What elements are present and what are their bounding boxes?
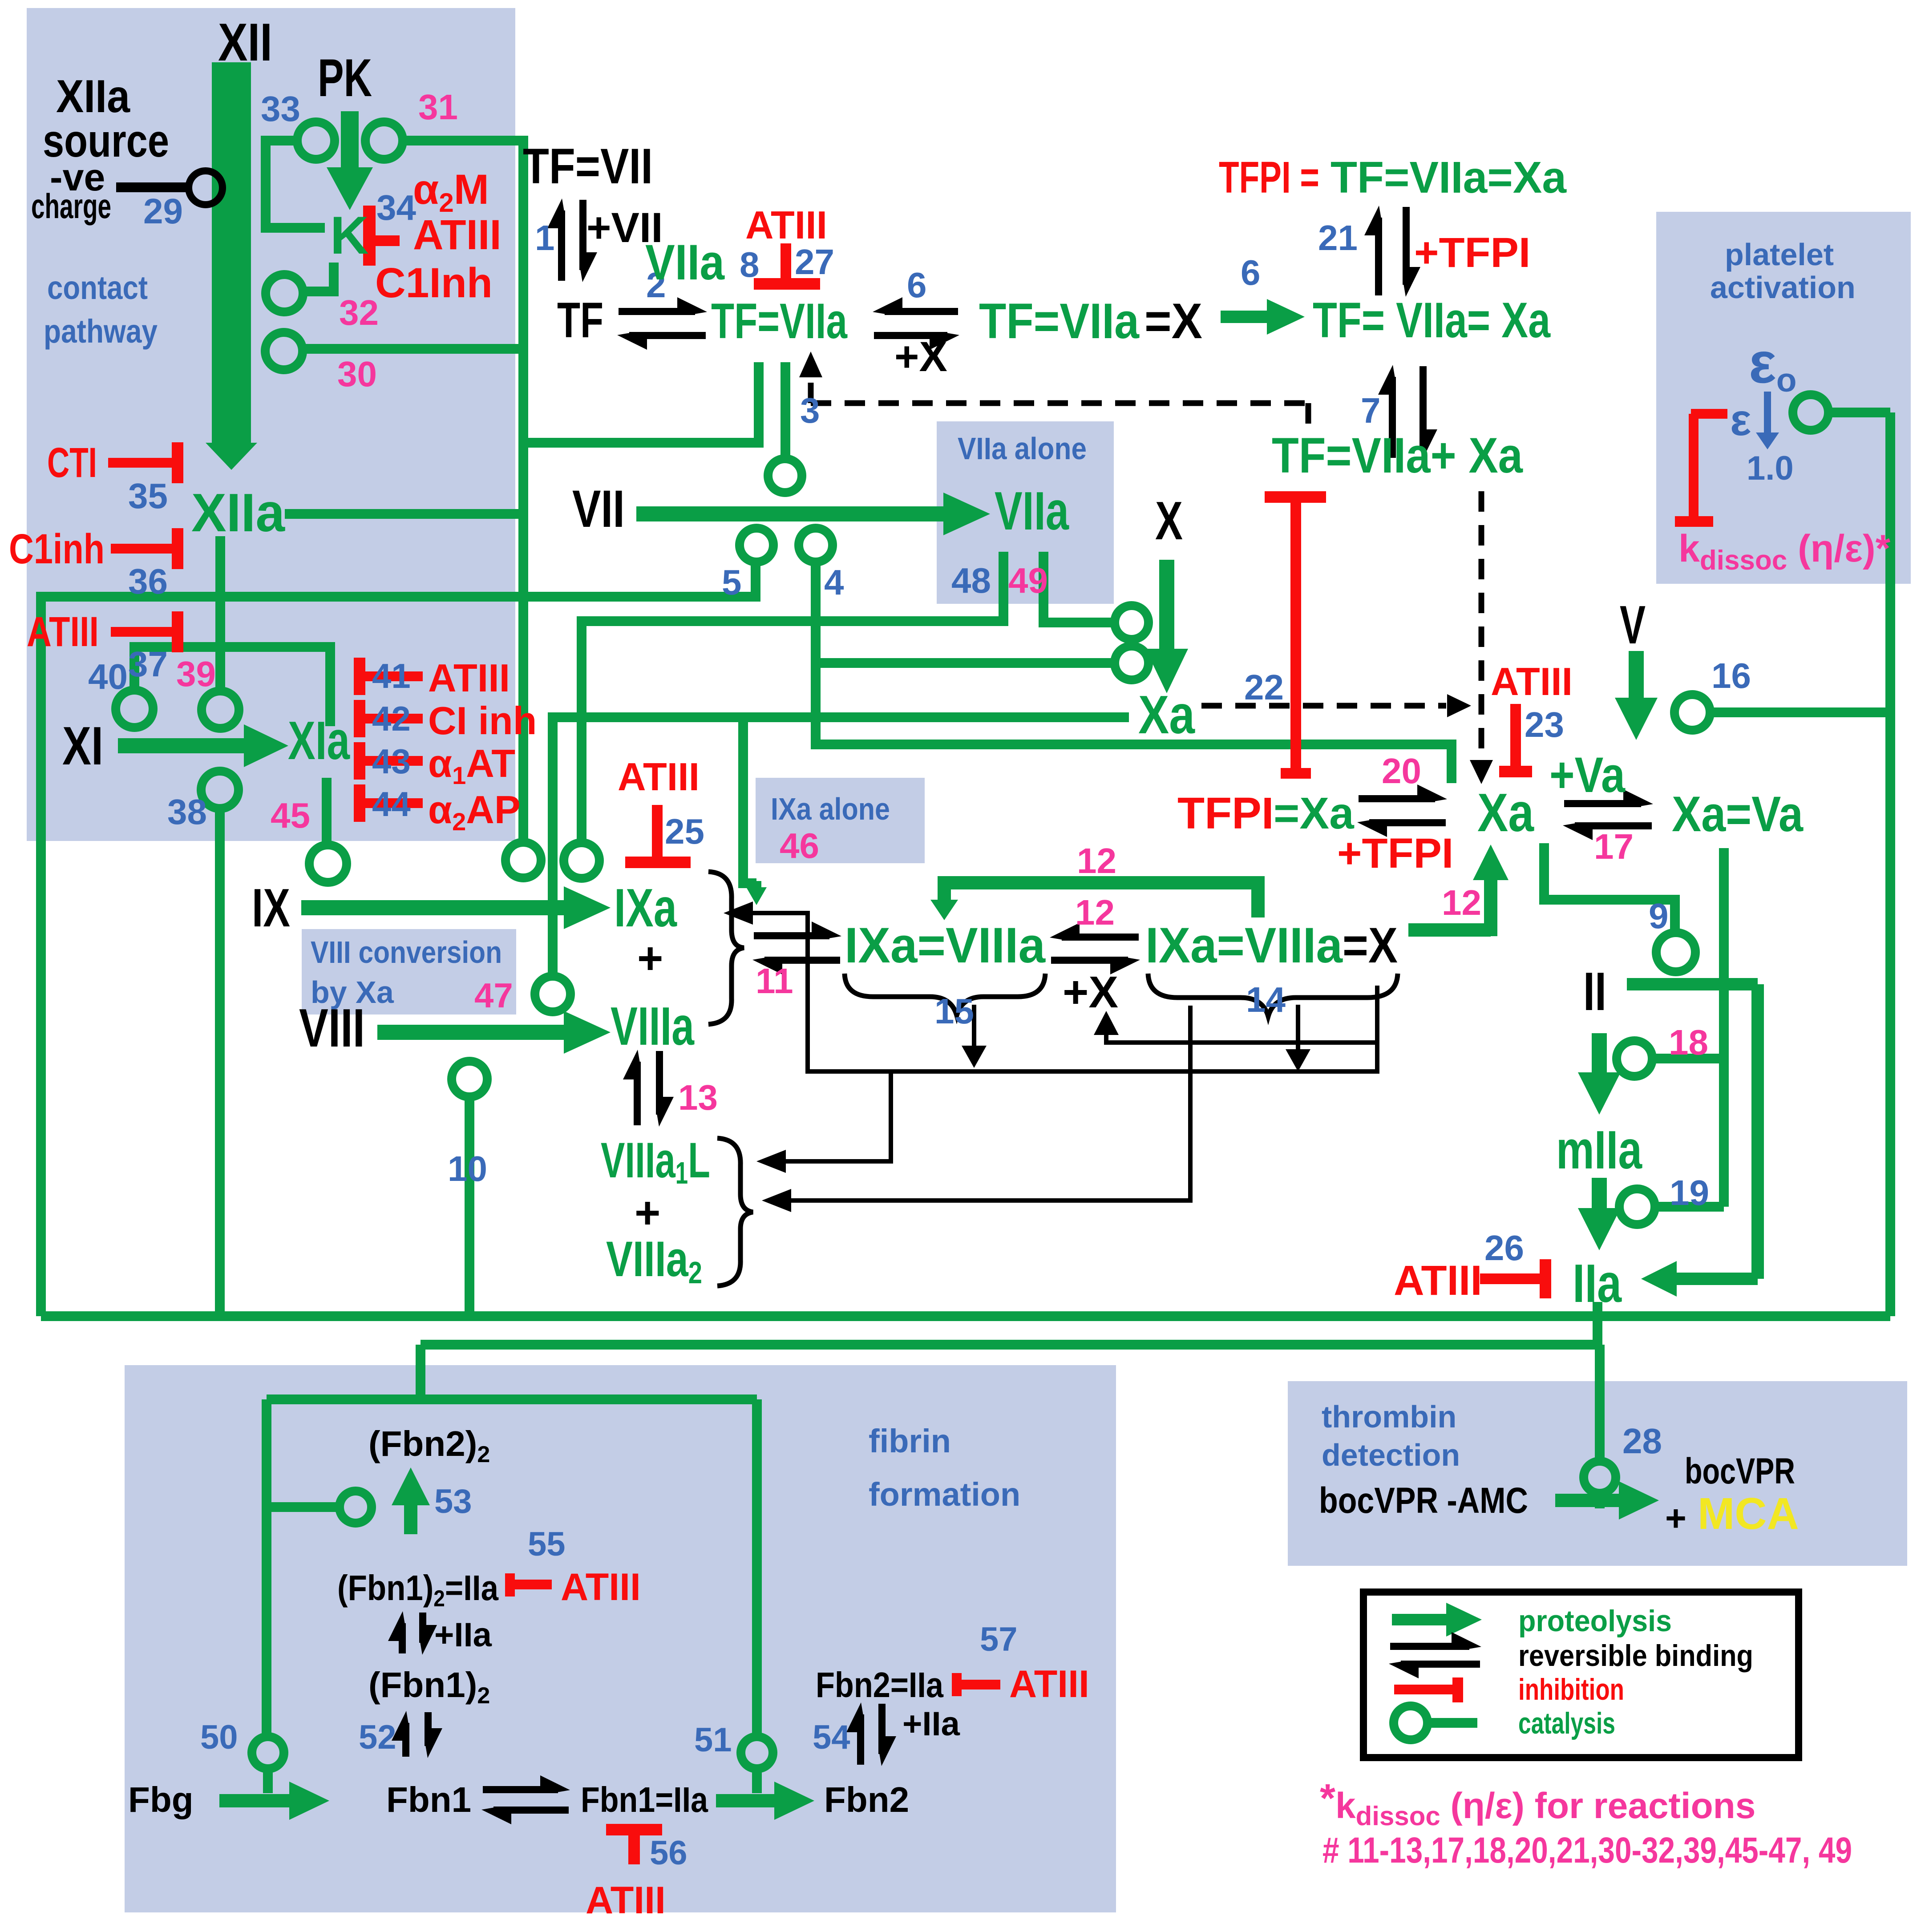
svg-text:VIII conversion: VIII conversion	[311, 935, 502, 970]
svg-text:3: 3	[800, 391, 820, 430]
svg-text:13: 13	[678, 1078, 718, 1117]
inhibition 34 on K	[363, 206, 376, 266]
svg-text:46: 46	[780, 826, 819, 865]
wire reaction 16 (platelet rail to circle 16)	[1710, 707, 1890, 717]
harpoons 52 vertical	[402, 1723, 409, 1757]
inhibition kdissoc on platelet epsilon	[1691, 409, 1727, 419]
wire reaction 45 (XIa down to circle 45 on IX arrow)	[322, 778, 332, 845]
svg-text:XI: XI	[62, 715, 103, 776]
catalysis circle platelet activation	[1793, 395, 1828, 430]
svg-text:37: 37	[128, 644, 168, 684]
inhibition 41 ATIII on XIa	[354, 658, 365, 695]
svg-text:=X: =X	[1343, 917, 1398, 973]
panel VIIa alone	[937, 421, 1114, 604]
svg-text:ATIII: ATIII	[428, 656, 510, 700]
svg-text:17: 17	[1594, 827, 1634, 866]
svg-text:29: 29	[143, 191, 183, 231]
arrow legend proteolysis	[1392, 1614, 1446, 1625]
svg-text:thrombin: thrombin	[1322, 1399, 1456, 1434]
svg-text:Fbn1=IIa: Fbn1=IIa	[581, 1780, 708, 1819]
panel contact pathway	[27, 8, 515, 841]
wire reaction 30 (XIIa to K loop)	[303, 344, 523, 354]
svg-text:ε: ε	[1730, 395, 1751, 445]
svg-text:platelet: platelet	[1725, 237, 1834, 272]
svg-text:ATIII: ATIII	[27, 608, 99, 655]
wire platelet activation output	[1828, 408, 1890, 417]
svg-text:contact: contact	[47, 269, 148, 306]
panel thrombin detection	[1288, 1381, 1907, 1566]
svg-text:V: V	[1620, 594, 1646, 655]
catalysis circle 53	[340, 1491, 372, 1523]
svg-text:VII: VII	[572, 480, 625, 538]
inhibition 44 a2AP on XIa	[354, 784, 365, 822]
svg-text:51: 51	[694, 1721, 732, 1759]
svg-text:45: 45	[271, 796, 310, 835]
svg-text:II: II	[1583, 961, 1606, 1022]
brace VIIIa1L plus VIIIa2 group	[717, 1138, 753, 1286]
svg-text:VIIa: VIIa	[995, 481, 1069, 541]
svg-text:mIIa: mIIa	[1556, 1120, 1642, 1180]
arrow Fbg to Fbn1	[219, 1794, 289, 1807]
svg-text:XIIa: XIIa	[191, 482, 285, 543]
catalysis circle 47	[535, 976, 570, 1012]
svg-text:31: 31	[418, 87, 458, 127]
svg-text:VIII: VIII	[299, 998, 365, 1058]
svg-text:TF=VIIa: TF=VIIa	[711, 293, 848, 349]
catalysis circle 33	[297, 122, 335, 159]
svg-text:20: 20	[1382, 751, 1421, 791]
svg-text:ATIII: ATIII	[1394, 1257, 1482, 1304]
line 15 dissociation of IXa=VIIIa	[972, 1005, 976, 1046]
svg-text:MCA: MCA	[1698, 1489, 1799, 1539]
svg-text:26: 26	[1484, 1228, 1524, 1268]
svg-text:proteolysis: proteolysis	[1518, 1604, 1672, 1638]
svg-text:PK: PK	[318, 48, 372, 108]
arrow VII to VIIa	[636, 506, 943, 521]
svg-text:43: 43	[372, 742, 411, 781]
svg-text:50: 50	[200, 1718, 238, 1756]
legend box frame	[1363, 1592, 1799, 1758]
svg-text:57: 57	[980, 1621, 1018, 1658]
svg-text:36: 36	[128, 562, 168, 601]
catalysis circle 39	[202, 691, 239, 728]
svg-text:19: 19	[1670, 1173, 1709, 1213]
harpoons 13 VIIIa dissociation vertical	[634, 1062, 641, 1125]
wire reaction 49 (VIIa alone to circle at X arrow)	[1043, 552, 1114, 622]
svg-text:IXa: IXa	[614, 877, 677, 938]
arrow IX to IXa	[301, 900, 564, 915]
svg-text:25: 25	[665, 812, 704, 851]
inhibition 37 ATIII on XIIa	[111, 627, 178, 637]
arrow II to mIIa	[1592, 1033, 1607, 1072]
inhibition legend sample	[1394, 1685, 1453, 1694]
catalysis circle 48 on IX arrow	[564, 843, 599, 878]
harpoons legend sample	[1390, 1643, 1469, 1650]
svg-text:TF=VIIa: TF=VIIa	[979, 293, 1140, 349]
svg-text:16: 16	[1711, 656, 1751, 695]
svg-text:+: +	[635, 1188, 660, 1238]
svg-text:Xa: Xa	[1138, 684, 1195, 745]
inhibition 27 ATIII on TF=VIIa	[781, 243, 791, 281]
wire reaction 9 (Xa=Va down to circle 9)	[1544, 843, 1675, 933]
svg-text:8: 8	[740, 245, 760, 284]
wire reaction 38 (IIa rail up to circle 38)	[215, 808, 225, 1316]
wire XIIa output right	[285, 509, 523, 519]
harpoons 17 Xa to Xa=Va	[1564, 800, 1641, 807]
svg-text:VIIa alone: VIIa alone	[958, 431, 1087, 466]
catalysis circle 30	[265, 332, 303, 370]
svg-text:12: 12	[1077, 841, 1116, 881]
wire reaction 5: IIa rail to circle 5 (VII activation by IIa)	[41, 562, 756, 1316]
svg-text:54: 54	[813, 1718, 850, 1756]
svg-text:18: 18	[1669, 1023, 1708, 1062]
dashed recycle TF=VIIa+Xa to TF=VIIa	[811, 400, 1308, 406]
svg-text:Xa: Xa	[1477, 782, 1534, 843]
svg-text:(Fbn1)2: (Fbn1)2	[368, 1665, 490, 1709]
wire reaction 50 drop (IIa to Fbg arrow)	[262, 1399, 271, 1738]
svg-text:42: 42	[372, 699, 411, 738]
wire bottom rail (IIa distribution)	[41, 1311, 1890, 1321]
svg-text:TF=VIIa+ Xa: TF=VIIa+ Xa	[1272, 428, 1523, 483]
svg-text:ATIII: ATIII	[618, 755, 700, 799]
svg-text:detection: detection	[1322, 1438, 1460, 1472]
svg-text:activation: activation	[1710, 270, 1856, 305]
inhibition 57 ATIII on Fbn2=IIa	[952, 1673, 962, 1696]
catalysis circle 9	[1656, 933, 1695, 972]
svg-text:ATIII: ATIII	[561, 1566, 641, 1609]
svg-text:41: 41	[372, 656, 411, 695]
wire IIa stub down	[1593, 1302, 1602, 1345]
svg-text:+X: +X	[894, 333, 947, 380]
inhibition 36 C1inh	[111, 544, 178, 554]
svg-text:VIIIa: VIIIa	[611, 996, 695, 1056]
svg-text:bocVPR: bocVPR	[1685, 1451, 1795, 1491]
arrow XII to XIIa	[212, 62, 251, 443]
panel VIII conversion by Xa	[302, 929, 516, 1015]
svg-text:39: 39	[176, 654, 216, 694]
svg-text:38: 38	[167, 792, 207, 832]
catalysis circle 18	[1617, 1041, 1652, 1076]
svg-text:+IIa: +IIa	[434, 1616, 492, 1654]
wire prothrombinase vertical	[1719, 848, 1729, 1207]
svg-text:VIIIa1L: VIIIa1L	[601, 1132, 710, 1190]
svg-text:1.0: 1.0	[1747, 449, 1794, 487]
wire reaction 10 (VIII activation by IIa)	[465, 1097, 474, 1316]
inhibition 22 on Xa production	[1265, 491, 1326, 503]
wire reaction 3 stub (TF=VIIa to circle 3)	[781, 362, 790, 458]
catalysis circle 10	[452, 1061, 487, 1097]
svg-text:11: 11	[756, 961, 793, 1001]
svg-text:Xa=Va: Xa=Va	[1672, 786, 1804, 842]
svg-text:CTI: CTI	[47, 439, 97, 486]
wire reaction 33 loop to K	[266, 141, 325, 228]
line dissociation return from complexes to IXa brace	[724, 901, 753, 925]
harpoons 20 TFPI=Xa to Xa	[1359, 795, 1435, 802]
arrow PK to K	[341, 111, 359, 167]
wire IIa return vertical	[1751, 984, 1764, 1279]
svg-text:5: 5	[722, 562, 742, 602]
svg-text:TF= VIIa= Xa: TF= VIIa= Xa	[1313, 292, 1551, 348]
wire reaction 46 (IXa alone to circle at X arrow)	[816, 658, 1115, 668]
svg-text:53: 53	[434, 1483, 472, 1520]
wire fibrin feed	[416, 1345, 425, 1399]
wire reaction 32 (K autocatalysis)	[303, 263, 334, 291]
inhibition 42 CI inh on XIa	[354, 700, 365, 737]
svg-text:catalysis: catalysis	[1518, 1706, 1615, 1740]
svg-text:=X: =X	[1144, 293, 1202, 349]
arrow mIIa to IIa	[1592, 1178, 1607, 1208]
catalysis circle 38	[201, 771, 239, 808]
svg-text:(Fbn2)2: (Fbn2)2	[368, 1424, 490, 1467]
catalysis circle 4	[799, 528, 833, 562]
svg-text:49: 49	[1008, 561, 1048, 600]
svg-text:inhibition: inhibition	[1518, 1673, 1624, 1706]
svg-text:ATIII: ATIII	[586, 1879, 666, 1922]
svg-text:+IIa: +IIa	[902, 1705, 960, 1743]
inhibition 26 ATIII on IIa	[1480, 1273, 1541, 1284]
svg-text:α1AT: α1AT	[428, 741, 515, 789]
catalysis circle on IX arrow (31/8)	[506, 842, 541, 878]
svg-text:C1inh: C1inh	[9, 525, 105, 573]
line VIIIa1L return upper	[756, 1150, 786, 1173]
svg-text:+TFPI: +TFPI	[1337, 830, 1453, 877]
line 14 dissociation of IXa=VIIIa=X	[1296, 1005, 1300, 1049]
svg-text:IIa: IIa	[1573, 1253, 1622, 1314]
wire reaction 40 loop (XIa autocatalysis)	[134, 647, 330, 726]
svg-text:33: 33	[261, 89, 300, 129]
dashed Xa transport horizontal	[1201, 703, 1446, 709]
wire lower rail to fibrin/thrombin detection	[421, 1340, 1600, 1350]
svg-text:ATIII: ATIII	[413, 211, 501, 259]
panel platelet activation	[1656, 212, 1911, 584]
catalysis circle 32	[266, 275, 303, 312]
harpoons 2 TF to TF=VIIa	[619, 308, 695, 315]
inhibition 35 CTI	[108, 458, 178, 468]
harpoons +IIa (Fbn1)2 vertical	[399, 1623, 406, 1653]
svg-text:(Fbn1)2=IIa: (Fbn1)2=IIa	[337, 1568, 498, 1612]
svg-text:IXa=VIIIa: IXa=VIIIa	[1145, 917, 1343, 973]
inhibition 23 ATIII on Xa	[1510, 704, 1521, 767]
svg-text:# 11-13,17,18,20,21,30-32,39,4: # 11-13,17,18,20,21,30-32,39,45-47, 49	[1322, 1830, 1852, 1871]
blue arrow epsilon	[1764, 392, 1771, 432]
svg-text:35: 35	[128, 476, 168, 516]
svg-text:+: +	[637, 934, 663, 983]
wire reaction 4 (Xa to VII circle, long route to Xa node)	[816, 563, 1452, 783]
wire II input	[1627, 978, 1758, 990]
svg-text:21: 21	[1318, 218, 1358, 258]
svg-text:reversible binding: reversible binding	[1518, 1639, 1753, 1673]
catalysis circle 3	[768, 459, 802, 493]
svg-text:α2AP: α2AP	[428, 788, 521, 836]
svg-text:6: 6	[907, 265, 927, 305]
harpoons 1 TF=VII vertical	[558, 210, 565, 281]
svg-text:charge: charge	[31, 186, 111, 226]
catalysis circle 5	[740, 528, 773, 562]
svg-text:pathway: pathway	[44, 313, 158, 350]
svg-text:6: 6	[1241, 253, 1261, 292]
svg-text:formation: formation	[869, 1476, 1020, 1513]
svg-text:23: 23	[1525, 705, 1564, 744]
catalysis circle 46 at X arrow	[1115, 646, 1149, 680]
arrow X to Xa	[1159, 560, 1174, 649]
svg-text:Fbn2=IIa: Fbn2=IIa	[816, 1665, 943, 1705]
wire reaction 48 (VIIa alone to circle on IX arrow)	[582, 552, 1003, 843]
wire reaction 12 product to Xa	[1408, 923, 1491, 937]
svg-text:34: 34	[376, 188, 416, 227]
underbrace IXa=VIIIa	[845, 974, 1045, 1015]
svg-text:bocVPR -AMC: bocVPR -AMC	[1319, 1480, 1528, 1521]
svg-text:55: 55	[528, 1525, 566, 1563]
harpoons 7 TF=VIIa+Xa vertical	[1389, 377, 1396, 458]
catalysis circle 31	[365, 122, 403, 159]
svg-text:14: 14	[1246, 980, 1286, 1019]
underbrace IXa=VIIIa=X	[1148, 974, 1398, 1016]
wire XIIa down to circle 39	[215, 536, 225, 691]
arrow V to Va	[1629, 651, 1644, 698]
arrow VIII to VIIIa	[377, 1025, 564, 1040]
svg-text:fibrin: fibrin	[869, 1423, 951, 1459]
svg-text:+X: +X	[1063, 967, 1118, 1017]
line VIIIa1L return lower	[762, 1189, 791, 1212]
catalysis circle 45	[309, 845, 347, 882]
catalysis circle 51	[741, 1737, 773, 1769]
svg-text:XII: XII	[218, 12, 272, 72]
svg-text:TF=VIIa=Xa: TF=VIIa=Xa	[1331, 153, 1567, 202]
svg-text:1: 1	[535, 218, 555, 258]
wire reaction 8 (TF=VIIa to IX line)	[523, 362, 759, 443]
arrow into IIa	[1677, 1273, 1758, 1285]
arrow Fbn1=IIa to Fbn2	[716, 1794, 774, 1807]
svg-text:30: 30	[337, 354, 377, 394]
harpoons 54 vertical	[857, 1714, 864, 1765]
svg-text:9: 9	[1649, 896, 1669, 936]
wire reaction 12 release to IXa=VIIIa	[944, 883, 1258, 917]
svg-text:C1Inh: C1Inh	[375, 259, 493, 307]
catalysis circle 49 at X arrow	[1115, 606, 1149, 639]
brace IXa plus VIIIa group	[708, 872, 744, 1024]
svg-text:+Va: +Va	[1549, 747, 1626, 803]
svg-text:TF: TF	[557, 292, 603, 348]
wire reaction 19 circle link	[1655, 1202, 1724, 1212]
svg-text:15: 15	[934, 991, 974, 1031]
svg-text:XIIa: XIIa	[56, 71, 130, 122]
svg-text:40: 40	[88, 657, 128, 696]
svg-text:44: 44	[372, 784, 411, 824]
svg-text:12: 12	[1075, 893, 1115, 932]
svg-text:IXa=VIIIa: IXa=VIIIa	[845, 917, 1046, 973]
svg-text:4: 4	[824, 562, 844, 602]
catalysis circle 16	[1674, 695, 1710, 730]
svg-text:XIa: XIa	[288, 710, 350, 771]
harpoons Fbn1 to Fbn1=IIa	[483, 1786, 558, 1793]
harpoons 21 TFPI=TF=VIIa=Xa vertical	[1375, 218, 1382, 295]
svg-text:IX: IX	[252, 877, 290, 938]
inhibition 55 ATIII on (Fbn1)2=IIa	[505, 1573, 515, 1597]
harpoons 12 IXa=VIIIa to IXa=VIIIa=X	[1062, 934, 1139, 941]
svg-text:10: 10	[448, 1149, 487, 1188]
svg-text:47: 47	[474, 976, 513, 1015]
svg-text:7: 7	[1361, 391, 1381, 430]
svg-text:28: 28	[1622, 1421, 1662, 1461]
svg-text:TFPI =: TFPI =	[1219, 153, 1319, 202]
svg-text:ATIII: ATIII	[745, 203, 827, 247]
svg-text:X: X	[1155, 490, 1183, 551]
svg-text:CI inh: CI inh	[428, 699, 537, 743]
svg-text:12: 12	[1442, 883, 1481, 922]
wire reaction 51 drop (IIa to Fbn1=IIa arrow)	[752, 1399, 762, 1738]
inhibition 43 a1AT on XIa	[354, 742, 365, 780]
wire reaction 31/8 line down to IX (K, XIIa, TF=VIIa inputs)	[403, 141, 523, 842]
arrow 6 TF=VIIa=X to TF=VIIa=Xa	[1221, 311, 1267, 323]
svg-text:Fbn1: Fbn1	[386, 1780, 471, 1819]
wire reaction 47 (Xa to VIII conversion circle)	[553, 717, 1129, 976]
svg-text:56: 56	[650, 1834, 687, 1872]
inhibition 56 ATIII on Fbn1=IIa	[606, 1824, 662, 1835]
wire reaction 18 circle link	[1652, 1054, 1724, 1063]
svg-text:48: 48	[951, 561, 991, 600]
arrow XI to XIa	[118, 738, 244, 753]
node -ve charge contact circle 29	[116, 182, 190, 192]
svg-text:27: 27	[795, 242, 834, 282]
wire right border	[1885, 412, 1895, 1316]
svg-text:+: +	[1665, 1498, 1686, 1539]
inhibition 25 ATIII on IXa	[652, 805, 663, 860]
panel fibrin formation	[125, 1365, 1116, 1912]
svg-text:ATIII: ATIII	[1009, 1663, 1089, 1706]
line X recycle to +X	[1106, 1032, 1377, 1043]
svg-text:32: 32	[339, 293, 379, 332]
svg-text:IXa alone: IXa alone	[771, 792, 890, 826]
svg-text:22: 22	[1244, 667, 1284, 707]
harpoons 6 TF=VIIa to TF=VIIa=X	[885, 308, 958, 315]
svg-text:K: K	[330, 206, 369, 265]
svg-text:VIIa: VIIa	[645, 234, 725, 290]
dashed Xa transport vertical	[1479, 491, 1484, 759]
svg-text:TFPI: TFPI	[1177, 788, 1274, 838]
arrow 53 to (Fbn2)2	[404, 1505, 417, 1534]
arrow bocVPR cleavage	[1555, 1494, 1619, 1507]
svg-text:Fbg: Fbg	[128, 1780, 194, 1819]
wire reaction 53 branch	[267, 1502, 340, 1512]
catalysis legend sample	[1394, 1706, 1428, 1740]
catalysis circle 40	[116, 690, 153, 728]
harpoons 11 IXa+VIIIa to IXa=VIIIa	[754, 932, 829, 939]
catalysis circle 28	[1584, 1461, 1616, 1493]
svg-text:ATIII: ATIII	[1491, 659, 1573, 703]
svg-text:+TFPI: +TFPI	[1414, 229, 1530, 276]
svg-text:VIIIa2: VIIIa2	[606, 1231, 702, 1290]
svg-text:52: 52	[359, 1718, 396, 1756]
svg-text:Fbn2: Fbn2	[824, 1780, 909, 1819]
catalysis circle 19	[1619, 1189, 1655, 1225]
svg-text:TF=VII: TF=VII	[523, 138, 653, 194]
catalysis circle 50	[252, 1737, 284, 1769]
panel IXa alone	[756, 778, 925, 863]
wire reaction 28 drop to thrombin detection	[1595, 1345, 1605, 1462]
